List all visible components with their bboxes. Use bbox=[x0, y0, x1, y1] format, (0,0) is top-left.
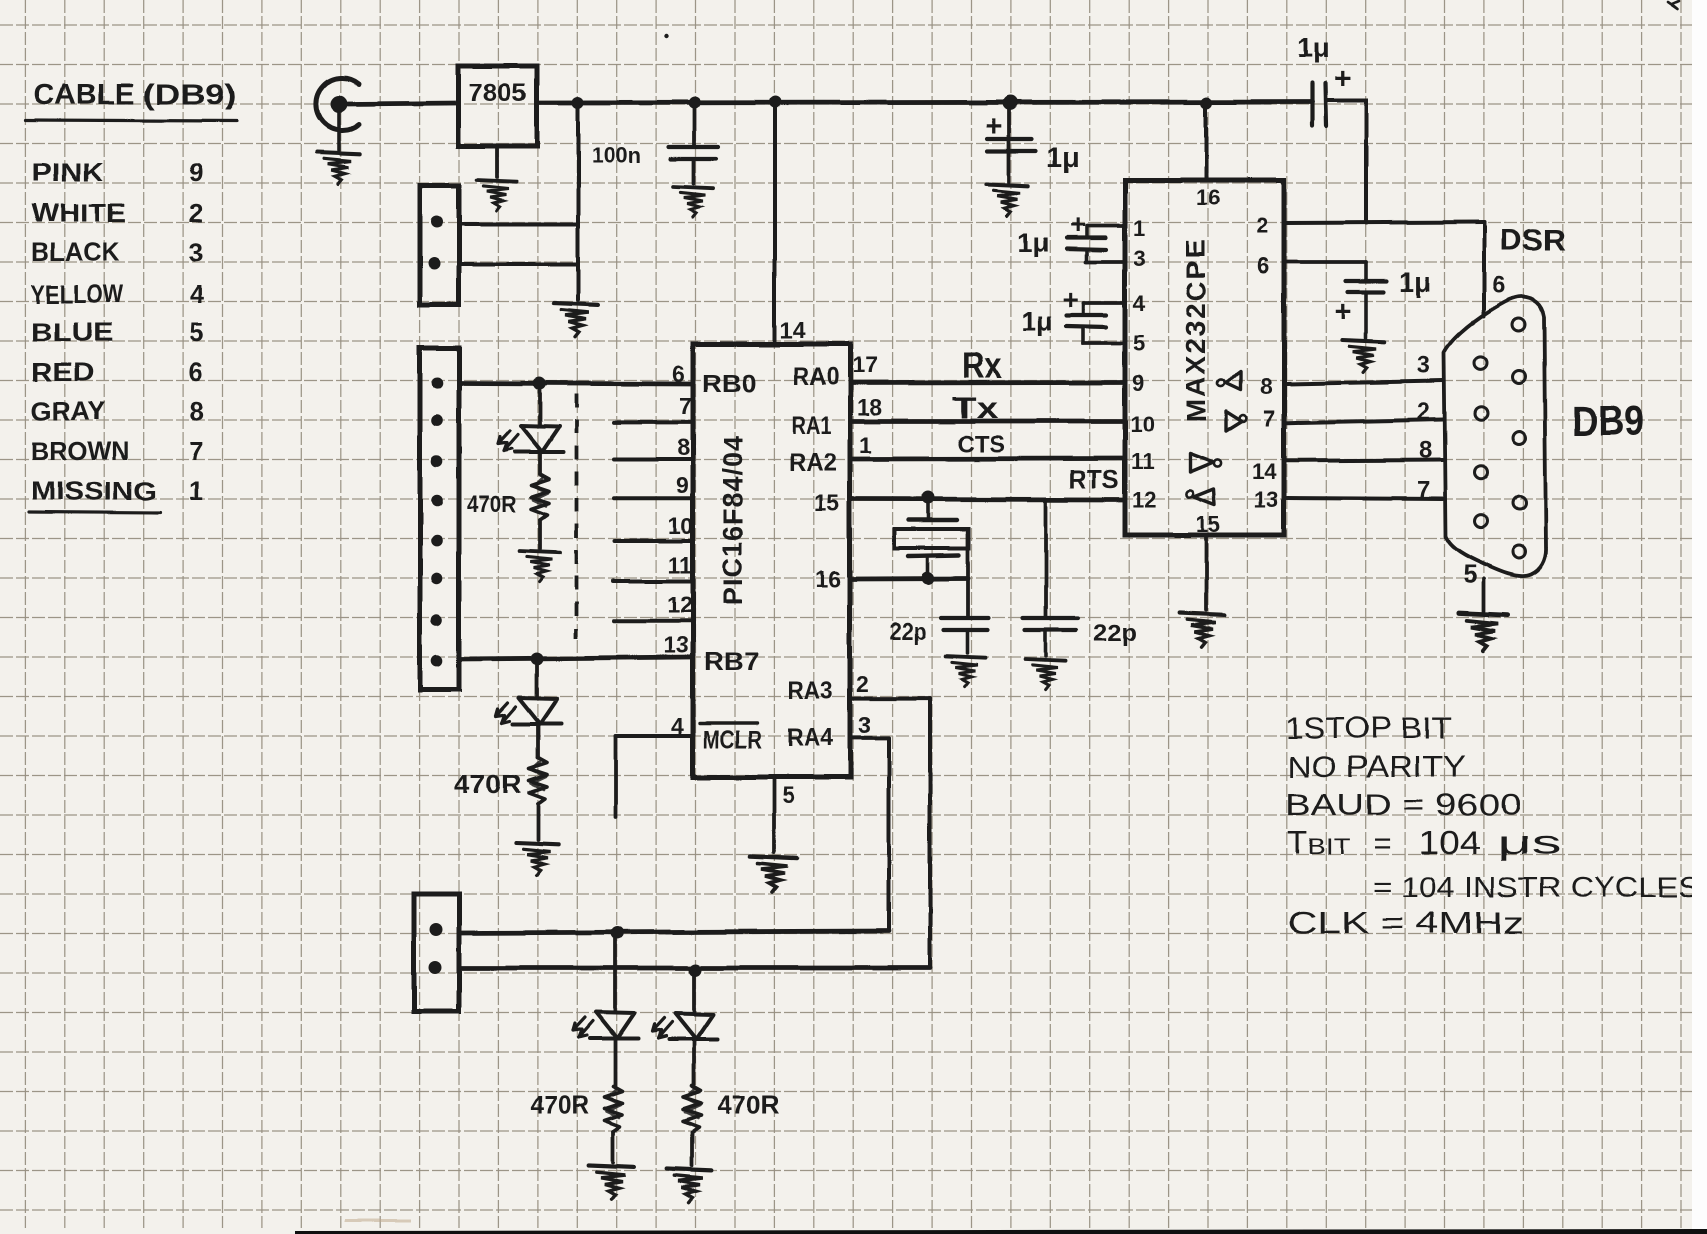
svg-text:470R: 470R bbox=[454, 769, 522, 799]
svg-text:14: 14 bbox=[780, 317, 806, 343]
LED D4 bbox=[652, 1013, 717, 1039]
power connector J1 bbox=[316, 78, 359, 130]
capacitor C9 22p bbox=[1023, 616, 1078, 620]
resistor R4 470R bbox=[683, 1086, 701, 1132]
svg-text:5: 5 bbox=[782, 782, 795, 808]
wire rail to C5 bbox=[1007, 104, 1011, 182]
node D3 tap bbox=[611, 927, 624, 940]
ground at C7 bbox=[674, 187, 714, 218]
svg-text:7: 7 bbox=[189, 436, 203, 466]
svg-text:8: 8 bbox=[677, 434, 690, 460]
wire C2 bottom lead bbox=[1081, 327, 1085, 343]
ground at J1 bbox=[317, 152, 359, 184]
wire down to DB9 pin6 bbox=[1482, 222, 1486, 316]
wire U1 pin10 stub bbox=[614, 539, 693, 543]
svg-text:4: 4 bbox=[1133, 291, 1146, 316]
wire C2 top lead bbox=[1081, 303, 1085, 315]
buffer triangle pin14 bbox=[1190, 453, 1214, 472]
svg-text:CLK = 4MHz: CLK = 4MHz bbox=[1288, 905, 1524, 940]
svg-text:1μ: 1μ bbox=[1399, 266, 1432, 297]
resistor R1 470R bbox=[531, 474, 549, 520]
wire U1 pin2 RA3 bbox=[850, 697, 930, 701]
wire U1 pin3 RA4 bbox=[850, 736, 889, 740]
svg-text:(DB9): (DB9) bbox=[143, 79, 237, 111]
wire U2 pin14 to DB9 pin8 bbox=[1287, 458, 1443, 463]
svg-text:NO PARITY: NO PARITY bbox=[1287, 749, 1465, 784]
smudge bbox=[345, 1219, 411, 1222]
svg-text:22p: 22p bbox=[1093, 620, 1137, 647]
wire U1 pin12 stub bbox=[614, 619, 693, 623]
scan edge right bbox=[1692, 0, 1707, 1234]
svg-text:PIC16F84/04: PIC16F84/04 bbox=[718, 435, 748, 605]
wire C1 top lead bbox=[1085, 226, 1089, 237]
ground at C5 bbox=[986, 184, 1028, 216]
ground at C8 bbox=[946, 656, 986, 687]
svg-text:10: 10 bbox=[668, 513, 694, 539]
svg-text:μs: μs bbox=[1497, 824, 1561, 861]
svg-text:4: 4 bbox=[189, 279, 204, 309]
svg-text:1μ: 1μ bbox=[1047, 142, 1080, 173]
svg-text:7: 7 bbox=[679, 393, 692, 419]
CON2 pin dot bbox=[431, 614, 443, 626]
wire crystal to pin16 net bbox=[926, 556, 930, 578]
wire R1 to ground bbox=[538, 520, 542, 549]
wire C4 to ground bbox=[1364, 292, 1368, 338]
capacitor C4 1u bbox=[1346, 279, 1386, 283]
node D4 tap bbox=[689, 964, 702, 977]
crystal X1 bbox=[908, 518, 957, 522]
wire rail 7805 to C3 bbox=[537, 102, 1312, 103]
svg-text:2: 2 bbox=[189, 198, 203, 228]
capacitor C2 1u bbox=[1066, 313, 1106, 317]
svg-text:470R: 470R bbox=[717, 1090, 780, 1120]
connector CON2 (8-pin) bbox=[420, 348, 459, 690]
ground at U2 pin15 bbox=[1180, 613, 1225, 647]
svg-text:BLUE: BLUE bbox=[31, 317, 114, 347]
ground at C4 bbox=[1342, 340, 1384, 372]
capacitor C7 100n bbox=[669, 145, 718, 149]
wire U2 pin15 to ground bbox=[1204, 535, 1208, 610]
wire rail to C7 bbox=[692, 104, 696, 146]
svg-text:3: 3 bbox=[1417, 352, 1430, 379]
connector J2 DB9 bbox=[1444, 297, 1546, 576]
svg-text:7: 7 bbox=[1417, 477, 1430, 504]
LED D3 bbox=[573, 1012, 638, 1038]
node D1 tap bbox=[534, 377, 547, 390]
CON3 pin dot 2 bbox=[429, 962, 442, 975]
svg-text:9: 9 bbox=[189, 157, 203, 187]
wire U2 pin2 to DB9 pin6 bbox=[1284, 222, 1484, 223]
wire OSC2/RTS U1 pin15 to U2 pin12 bbox=[850, 497, 1125, 502]
wire U2 pin3 bbox=[1086, 260, 1125, 264]
svg-text:1STOP BIT: 1STOP BIT bbox=[1285, 710, 1452, 745]
svg-text:1μ: 1μ bbox=[1021, 306, 1053, 336]
node rail x1010 bbox=[1003, 96, 1018, 111]
resistor R3 470R bbox=[604, 1086, 622, 1132]
scan edge bottom bar bbox=[295, 1229, 1707, 1234]
svg-text:3: 3 bbox=[189, 237, 203, 267]
svg-text:1: 1 bbox=[859, 432, 872, 458]
svg-text:DSR: DSR bbox=[1500, 224, 1566, 257]
svg-text:6: 6 bbox=[1492, 272, 1505, 299]
svg-text:15: 15 bbox=[814, 490, 840, 516]
wire U2 pin4 bbox=[1083, 301, 1125, 305]
svg-text:16: 16 bbox=[816, 566, 842, 592]
svg-text:RTS: RTS bbox=[1069, 464, 1119, 494]
ground at R4 bbox=[667, 1169, 712, 1203]
ground at 7805 bbox=[477, 180, 517, 211]
svg-text:17: 17 bbox=[852, 352, 878, 378]
svg-text:16: 16 bbox=[1196, 185, 1220, 210]
CON1 pin dot 1 bbox=[431, 216, 443, 228]
wire CON1-1 to node bbox=[459, 222, 578, 226]
node rail x694 bbox=[688, 97, 700, 109]
resistor R2 470R bbox=[529, 758, 547, 804]
dashed bus line bbox=[574, 394, 578, 638]
svg-text:RB0: RB0 bbox=[702, 370, 757, 398]
wire U2 pin13 to DB9 pin7 bbox=[1287, 498, 1443, 499]
wire R2 to ground bbox=[536, 804, 540, 840]
svg-text:470R: 470R bbox=[467, 491, 516, 518]
wire rail to MAX232 pin16 bbox=[1204, 104, 1208, 180]
node crystal top bbox=[922, 491, 935, 504]
wire U2 pin8 to DB9 pin3 bbox=[1287, 381, 1443, 384]
svg-text:1μ: 1μ bbox=[1018, 228, 1050, 258]
wire to D1 bbox=[538, 384, 542, 425]
svg-text:12: 12 bbox=[667, 592, 693, 618]
wire C8 to ground bbox=[966, 631, 970, 653]
svg-text:BLACK: BLACK bbox=[31, 237, 120, 267]
overline MCLR bbox=[700, 721, 757, 724]
node D2 tap bbox=[531, 652, 544, 665]
ground below CON1 wires bbox=[553, 303, 598, 337]
svg-text:2: 2 bbox=[856, 671, 869, 697]
svg-text:6: 6 bbox=[189, 357, 203, 387]
node rail x578 bbox=[572, 97, 584, 109]
svg-text:T: T bbox=[1287, 824, 1307, 861]
svg-text:22p: 22p bbox=[889, 619, 926, 646]
LED D1 bbox=[498, 426, 563, 452]
svg-text:RA4: RA4 bbox=[787, 724, 833, 752]
wire Rx U1 pin17 to U2 pin9 bbox=[850, 380, 1125, 385]
svg-text:CTS: CTS bbox=[957, 431, 1005, 458]
wire CON1-2 to node bbox=[459, 262, 578, 266]
table title underline bbox=[26, 120, 237, 121]
wire RA3 down bbox=[928, 699, 932, 968]
wire U1 pin8 stub bbox=[614, 457, 693, 461]
wire C7 to ground bbox=[692, 160, 696, 184]
node crystal bottom bbox=[922, 572, 935, 585]
wire U1 pin4 MCLR bbox=[616, 734, 693, 738]
svg-text:8: 8 bbox=[1419, 437, 1432, 464]
wire U1 pin9 stub bbox=[614, 496, 693, 500]
node rail x775 bbox=[769, 96, 781, 108]
svg-text:CABLE: CABLE bbox=[34, 79, 135, 111]
svg-text:PINK: PINK bbox=[31, 157, 104, 187]
ground at R3 bbox=[589, 1165, 634, 1199]
svg-text:WHITE: WHITE bbox=[31, 198, 126, 228]
wire A to CON3 bbox=[459, 931, 889, 933]
buffer triangle pin7 bbox=[1226, 411, 1242, 431]
CON2 pin dot bbox=[431, 455, 443, 467]
wire to D4 bbox=[692, 970, 696, 1012]
wire to D2 bbox=[535, 659, 539, 697]
wire U2 pin6 to C4 bbox=[1284, 260, 1366, 264]
connector CON1 (2-pin) bbox=[420, 186, 459, 305]
wire R3 to ground bbox=[611, 1132, 615, 1162]
wire C1 bottom lead bbox=[1085, 250, 1089, 262]
svg-text:9: 9 bbox=[676, 472, 689, 498]
wire MCLR stub down bbox=[614, 736, 618, 817]
svg-text:RA1: RA1 bbox=[791, 412, 831, 440]
wire R4 to ground bbox=[690, 1132, 694, 1166]
svg-text:+: + bbox=[1334, 62, 1352, 95]
CON2 pin dot bbox=[431, 378, 443, 390]
wire V+ net to C9 bbox=[1044, 500, 1048, 617]
wire U2 pin1 bbox=[1088, 224, 1125, 228]
wire U2 pin7 to DB9 pin2 bbox=[1287, 420, 1443, 423]
LED D2 bbox=[496, 698, 561, 724]
svg-text:8: 8 bbox=[1260, 374, 1272, 399]
capacitor C5 1u bbox=[987, 137, 1032, 141]
svg-text:13: 13 bbox=[663, 632, 689, 658]
svg-text:RB7: RB7 bbox=[704, 648, 759, 676]
svg-text:14: 14 bbox=[1252, 459, 1277, 484]
wire U1 pin5 to ground bbox=[772, 777, 776, 852]
IC U1 PIC16F84/04 bbox=[693, 344, 850, 777]
svg-text:11: 11 bbox=[1131, 449, 1154, 474]
svg-text:5: 5 bbox=[189, 317, 203, 347]
wire U1 pin11 stub bbox=[614, 579, 693, 583]
wire to D3 bbox=[613, 933, 617, 1011]
svg-text:100n: 100n bbox=[591, 143, 641, 168]
ground at U1 pin5 bbox=[750, 856, 797, 892]
svg-text:15: 15 bbox=[1196, 512, 1220, 537]
wire D1 to R1 bbox=[538, 452, 542, 474]
wire C4 top lead bbox=[1364, 262, 1368, 281]
buffer triangle pin8 bbox=[1226, 372, 1241, 390]
wire U2 pin5 bbox=[1083, 341, 1125, 345]
wire Tx U1 pin18 to U2 pin10 bbox=[850, 419, 1125, 424]
wire to C8 bbox=[966, 529, 970, 617]
svg-text:RA0: RA0 bbox=[793, 363, 839, 391]
wire U1 pin7 stub bbox=[614, 420, 693, 424]
capacitor C1 1u bbox=[1067, 236, 1106, 240]
svg-text:BIT: BIT bbox=[1307, 834, 1351, 859]
ground at C9 bbox=[1026, 659, 1066, 690]
wire CTS U1 pin1 to U2 pin11 bbox=[850, 456, 1125, 461]
wire rail down to ground x578 bbox=[576, 104, 580, 300]
wire C3 to corner bbox=[1326, 98, 1366, 102]
wire C3 down to V+ net bbox=[1364, 100, 1368, 223]
svg-text:RED: RED bbox=[31, 357, 95, 387]
svg-text:RA3: RA3 bbox=[788, 677, 833, 705]
svg-text:9: 9 bbox=[1132, 371, 1144, 396]
IC U2 MAX232CPE bbox=[1125, 180, 1284, 535]
node rail x1207 bbox=[1201, 97, 1213, 109]
connector CON3 (2-pin) bbox=[414, 894, 459, 1012]
svg-text:1: 1 bbox=[1133, 216, 1145, 241]
wire rail J1 to 7805 bbox=[348, 103, 458, 104]
svg-text:YELLOW: YELLOW bbox=[31, 279, 123, 309]
wire J1 to ground bbox=[337, 112, 341, 150]
wire B to CON3 bbox=[459, 966, 930, 971]
wire 7805 gnd pin bbox=[495, 146, 499, 177]
wire CON2-1 to U1 pin6 RB0 bbox=[459, 383, 693, 384]
wire D2 to R2 bbox=[536, 724, 540, 758]
wire to crystal bbox=[926, 499, 930, 519]
svg-text:DB9: DB9 bbox=[1572, 397, 1644, 444]
wire D4 to R4 bbox=[692, 1039, 696, 1087]
svg-text:12: 12 bbox=[1132, 487, 1156, 512]
svg-text:3: 3 bbox=[858, 712, 871, 738]
CON1 pin dot 2 bbox=[428, 258, 440, 270]
svg-text:2: 2 bbox=[1417, 399, 1430, 426]
svg-text:MCLR: MCLR bbox=[703, 726, 762, 754]
CON2 pin dot bbox=[431, 535, 443, 547]
svg-text:2: 2 bbox=[1256, 213, 1268, 238]
svg-text:+: + bbox=[1062, 284, 1078, 315]
underline MISSING bbox=[29, 512, 160, 513]
svg-text:13: 13 bbox=[1254, 487, 1278, 512]
wire DB9 pin5 to ground bbox=[1482, 579, 1486, 611]
wire RA4 down bbox=[887, 738, 891, 931]
CON2 pin dot bbox=[431, 415, 443, 427]
svg-text:5: 5 bbox=[1133, 331, 1145, 356]
svg-text:BAUD = 9600: BAUD = 9600 bbox=[1285, 787, 1521, 822]
ground at R2 bbox=[516, 843, 558, 875]
svg-text:470R: 470R bbox=[530, 1090, 588, 1120]
svg-text:11: 11 bbox=[668, 552, 693, 578]
svg-text:Tx: Tx bbox=[952, 392, 998, 425]
CON2 pin dot bbox=[431, 572, 443, 584]
ground at DB9 pin5 bbox=[1459, 613, 1508, 651]
svg-text:5: 5 bbox=[1463, 559, 1477, 589]
svg-text:3: 3 bbox=[1133, 246, 1145, 271]
svg-text:RA2: RA2 bbox=[789, 449, 837, 477]
svg-text:7: 7 bbox=[1263, 406, 1275, 431]
CON2 pin dot bbox=[431, 655, 443, 667]
svg-text:6: 6 bbox=[1257, 253, 1269, 278]
svg-text:10: 10 bbox=[1130, 412, 1154, 437]
pen tick bbox=[1668, 1, 1679, 9]
svg-text:Rx: Rx bbox=[962, 345, 1002, 386]
buffer triangle pin13 bbox=[1194, 489, 1215, 505]
wire U1 pin16 OSC1 bbox=[850, 576, 968, 581]
svg-text:+: + bbox=[1070, 209, 1086, 240]
svg-text:+: + bbox=[1334, 296, 1352, 329]
svg-text:18: 18 bbox=[857, 394, 883, 420]
wire D3 to R3 bbox=[613, 1038, 617, 1087]
CON3 pin dot 1 bbox=[430, 924, 443, 937]
svg-text:= 104 INSTR CYCLES: = 104 INSTR CYCLES bbox=[1373, 872, 1700, 904]
svg-text:MAX232CPE: MAX232CPE bbox=[1180, 238, 1211, 423]
svg-text:=: = bbox=[1374, 826, 1392, 861]
svg-text:1: 1 bbox=[189, 476, 203, 506]
ink speck bbox=[665, 34, 669, 38]
wire rail to PIC pin14 bbox=[773, 102, 777, 344]
svg-text:MISSING: MISSING bbox=[31, 476, 157, 506]
CON2 pin dot bbox=[431, 494, 443, 506]
regulator 7805 bbox=[458, 66, 537, 146]
svg-text:104: 104 bbox=[1419, 824, 1481, 861]
capacitor C8 22p bbox=[941, 616, 989, 620]
svg-text:8: 8 bbox=[189, 396, 203, 426]
svg-text:BROWN: BROWN bbox=[31, 436, 129, 466]
svg-text:7805: 7805 bbox=[468, 79, 527, 107]
wire C9 to ground bbox=[1044, 631, 1048, 656]
svg-text:GRAY: GRAY bbox=[31, 396, 105, 426]
ground at R1 bbox=[520, 551, 560, 582]
wire CON2-8 to U1 pin13 RB7 bbox=[459, 657, 693, 659]
svg-text:1μ: 1μ bbox=[1297, 32, 1330, 63]
capacitor C3 1u (series) bbox=[1310, 83, 1314, 126]
